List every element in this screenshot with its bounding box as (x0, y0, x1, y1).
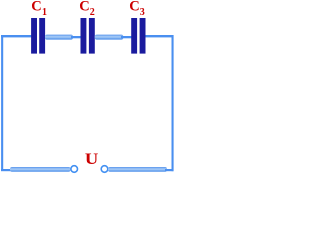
capacitor C3 (131, 18, 145, 54)
capacitor C2 right plate (89, 18, 95, 54)
wire thin C1-C2 to C2 plate (71, 36, 81, 38)
capacitor C1 left plate (31, 18, 37, 54)
wire band C1 to C2 (45, 35, 73, 40)
wire right vertical segment (172, 35, 174, 171)
wire bottom-right thick band (108, 167, 167, 172)
capacitor C2 (81, 18, 95, 54)
svg-text:1: 1 (42, 7, 47, 18)
wire bottom-right thin segment (165, 169, 174, 171)
svg-text:C: C (129, 0, 139, 15)
capacitor C1 right plate (39, 18, 45, 54)
wire thin C2-C3 to C3 plate (121, 36, 132, 38)
wire band C2 to C3 (95, 35, 124, 40)
capacitor C3 right plate (140, 18, 146, 54)
wire left vertical segment (1, 35, 3, 171)
capacitor C1 (31, 18, 45, 54)
svg-text:U: U (85, 149, 99, 168)
terminal left circle (71, 166, 78, 173)
wire top-right horizontal segment (145, 35, 174, 37)
wire bottom-left thick band (10, 167, 71, 172)
svg-text:3: 3 (140, 7, 145, 18)
capacitor C2 left plate (81, 18, 87, 54)
wire top-left horizontal segment (1, 35, 32, 37)
wire bottom-left thin segment (1, 169, 11, 171)
terminal right circle (101, 166, 108, 173)
label C2 (79, 0, 95, 18)
svg-text:C: C (79, 0, 89, 15)
capacitor C3 left plate (131, 18, 137, 54)
label C3 (129, 0, 145, 18)
svg-text:2: 2 (90, 7, 95, 18)
label C1 (31, 0, 47, 18)
svg-text:C: C (31, 0, 41, 15)
